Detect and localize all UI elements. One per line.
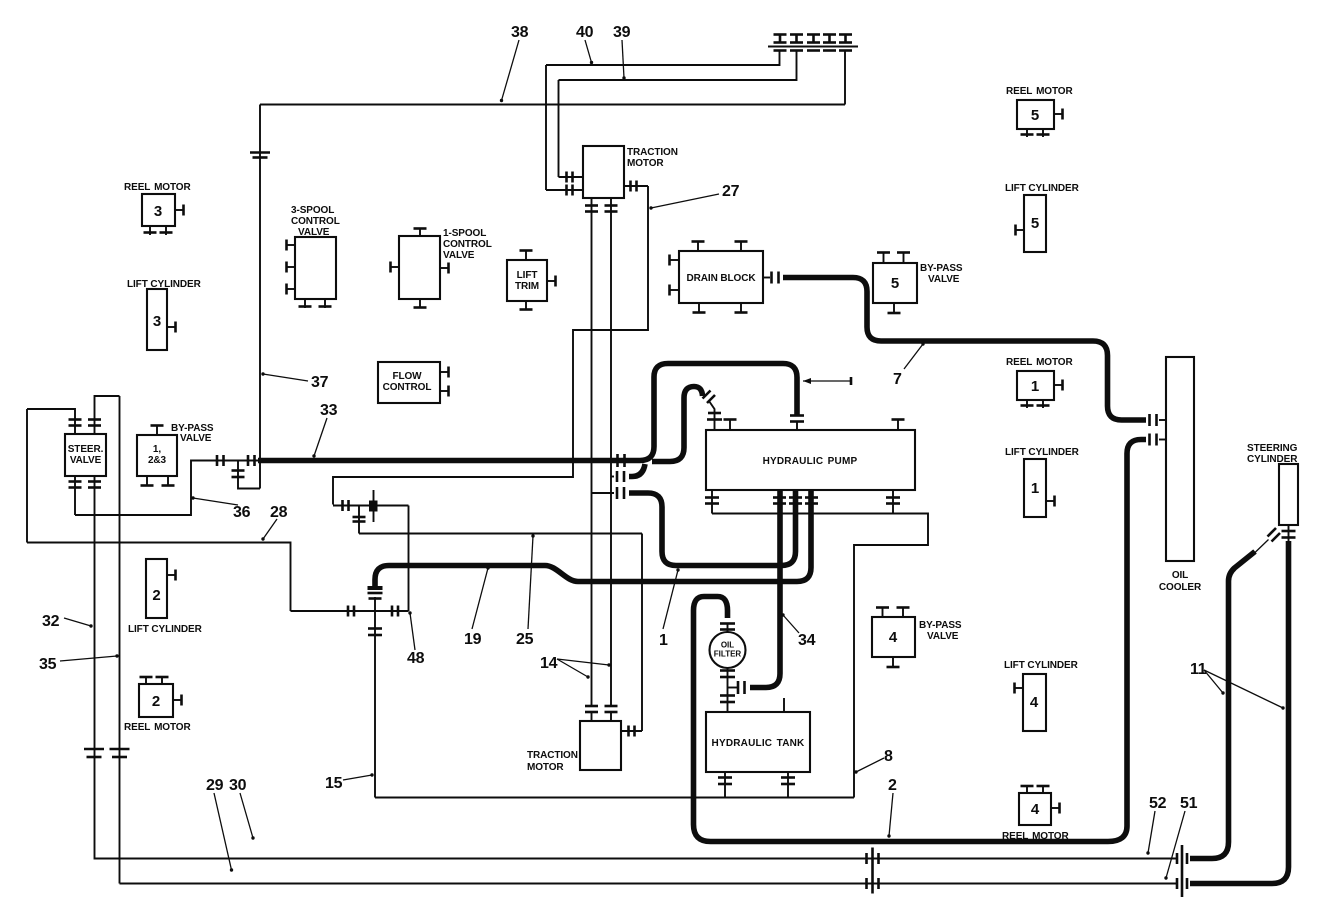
svg-text:5: 5 xyxy=(1031,215,1039,232)
hose B from x591 line to pump xyxy=(592,492,615,494)
svg-text:CONTROL: CONTROL xyxy=(383,382,432,393)
svg-text:15: 15 xyxy=(325,775,343,792)
wire bottom line lower y883 xyxy=(120,883,1178,885)
manifold connector 4 xyxy=(823,35,836,51)
hydraulic pump box xyxy=(706,430,915,490)
svg-text:37: 37 xyxy=(311,374,329,391)
svg-text:REEL MOTOR: REEL MOTOR xyxy=(1006,86,1073,97)
wire vertical x260 xyxy=(259,105,261,489)
svg-text:2: 2 xyxy=(888,777,897,794)
steer valve top-left coupler xyxy=(27,409,75,434)
svg-text:TRACTION: TRACTION xyxy=(527,750,578,761)
manifold connector 3 xyxy=(807,35,820,51)
stub from y505 down to y534 line xyxy=(358,506,360,534)
oil filter return hose xyxy=(694,454,1128,842)
svg-text:CONTROL: CONTROL xyxy=(291,216,340,227)
svg-text:33: 33 xyxy=(320,402,338,419)
svg-text:REEL MOTOR: REEL MOTOR xyxy=(1006,357,1073,368)
svg-text:1: 1 xyxy=(659,632,668,649)
svg-text:1: 1 xyxy=(1031,378,1039,395)
svg-text:1: 1 xyxy=(1031,480,1039,497)
svg-text:29: 29 xyxy=(206,777,224,794)
flow control xyxy=(378,362,440,403)
svg-text:FLOW: FLOW xyxy=(392,371,422,382)
svg-text:38: 38 xyxy=(511,24,529,41)
wire 36 loop xyxy=(75,461,215,516)
svg-text:LIFT: LIFT xyxy=(517,270,538,281)
pump hook vent hose xyxy=(652,387,703,462)
lift cylinder 1 xyxy=(1024,459,1046,517)
wire y505 segment xyxy=(333,505,409,507)
steering cylinder xyxy=(1279,464,1298,525)
svg-text:1,: 1, xyxy=(153,444,161,455)
svg-text:CYLINDER: CYLINDER xyxy=(1247,454,1298,465)
cooler lower fitting xyxy=(1159,439,1166,441)
svg-text:VALVE: VALVE xyxy=(443,250,475,261)
bulkhead connector mid xyxy=(871,848,874,894)
svg-text:28: 28 xyxy=(270,504,288,521)
lift cylinder 3 xyxy=(147,289,167,350)
coupler column at x375 lower xyxy=(374,611,376,798)
wire 14 line left (x591) xyxy=(591,212,593,707)
by-pass valve 4 xyxy=(872,617,915,657)
hose from x611 line to hose 33 xyxy=(611,476,614,478)
svg-text:LIFT CYLINDER: LIFT CYLINDER xyxy=(128,624,203,635)
wire x642 drop to lower TM xyxy=(641,534,643,732)
svg-text:2: 2 xyxy=(152,587,160,604)
svg-text:OIL: OIL xyxy=(1172,570,1188,581)
svg-text:36: 36 xyxy=(233,504,251,521)
hose C traction return xyxy=(375,490,811,588)
couplers above lower TM xyxy=(585,706,598,712)
oil cooler xyxy=(1166,357,1194,561)
coupler on x94 line xyxy=(84,749,104,757)
manifold connector 2 xyxy=(790,35,803,51)
fitting lower TM right xyxy=(621,730,642,732)
wire 14 line right (x611) xyxy=(610,212,612,707)
steer valve top-right coupler xyxy=(95,396,120,434)
blocked coupling symbol on y505 xyxy=(373,490,375,522)
svg-text:48: 48 xyxy=(407,650,425,667)
svg-text:DRAIN BLOCK: DRAIN BLOCK xyxy=(687,273,757,284)
lift trim xyxy=(507,260,547,301)
lift cylinder 4 xyxy=(1023,674,1046,731)
svg-text:LIFT CYLINDER: LIFT CYLINDER xyxy=(127,279,202,290)
svg-text:VALVE: VALVE xyxy=(70,455,102,466)
svg-text:35: 35 xyxy=(39,656,57,673)
wire 48 junction line y611 xyxy=(291,610,409,612)
svg-text:4: 4 xyxy=(1031,801,1040,818)
svg-text:REEL MOTOR: REEL MOTOR xyxy=(124,182,191,193)
svg-text:TRACTION: TRACTION xyxy=(627,147,678,158)
lift cylinder 5 xyxy=(1024,195,1046,252)
hose 11 right xyxy=(1190,541,1289,884)
hose C end flare xyxy=(368,586,383,590)
svg-text:25: 25 xyxy=(516,631,534,648)
manifold connector 5 xyxy=(839,35,852,51)
svg-text:LIFT CYLINDER: LIFT CYLINDER xyxy=(1005,183,1080,194)
svg-text:4: 4 xyxy=(1030,694,1039,711)
reel motor 5 xyxy=(1017,100,1054,129)
tank top stub xyxy=(783,698,785,712)
fitting on y611 left xyxy=(348,606,354,617)
filter-tank couplers xyxy=(720,696,735,703)
reel motor 1 xyxy=(1017,371,1054,400)
wire tank bottom line y797 xyxy=(375,797,854,799)
svg-text:LIFT CYLINDER: LIFT CYLINDER xyxy=(1004,660,1079,671)
coupler on x260 line xyxy=(250,153,270,158)
hose 33 supply xyxy=(258,364,797,461)
svg-text:3: 3 xyxy=(153,313,161,330)
wire TM right port chain xyxy=(333,186,648,505)
by-pass valve 2&3 xyxy=(137,435,177,476)
oil filter bottom coupler xyxy=(727,668,729,712)
wire top long line 38 xyxy=(260,104,845,106)
TM bottom stub couplers xyxy=(591,198,593,212)
drain block xyxy=(679,251,763,303)
reel motor 3 xyxy=(142,194,175,226)
svg-text:REEL MOTOR: REEL MOTOR xyxy=(124,722,191,733)
svg-text:5: 5 xyxy=(1031,107,1039,124)
fitting TM top left lower xyxy=(546,189,583,191)
pump bottom fitting x712 xyxy=(711,490,713,514)
svg-text:5: 5 xyxy=(891,275,899,292)
svg-text:1-SPOOL: 1-SPOOL xyxy=(443,228,486,239)
svg-text:VALVE: VALVE xyxy=(180,433,212,444)
wire 25 line y534 xyxy=(359,533,642,535)
wire bottom line upper y858 xyxy=(95,749,1178,859)
reel motor 4 xyxy=(1019,793,1051,825)
svg-text:27: 27 xyxy=(722,183,740,200)
hose 11 left xyxy=(1190,552,1255,859)
lift cylinder 2 xyxy=(146,559,167,618)
svg-text:MOTOR: MOTOR xyxy=(627,158,664,169)
svg-text:32: 32 xyxy=(42,613,60,630)
tank bottom right coupler xyxy=(787,772,789,798)
svg-text:19: 19 xyxy=(464,631,482,648)
hose A pressure to filter xyxy=(750,490,780,688)
cooler upper fitting xyxy=(1159,419,1166,421)
tank bottom left coupler xyxy=(724,772,726,798)
svg-text:3-SPOOL: 3-SPOOL xyxy=(291,205,334,216)
svg-text:39: 39 xyxy=(613,24,631,41)
steer valve bottom-left coupler xyxy=(74,476,76,515)
manifold bulkhead line xyxy=(768,46,858,48)
by-pass valve 5 xyxy=(873,263,917,303)
svg-text:8: 8 xyxy=(884,748,893,765)
coupler column at x375 upper xyxy=(374,597,376,611)
lower traction motor box xyxy=(580,721,621,770)
drain block right fitting xyxy=(763,277,770,279)
svg-text:COOLER: COOLER xyxy=(1159,582,1202,593)
fitting on y505 xyxy=(343,500,349,511)
filter outlet tee fitting xyxy=(728,687,738,689)
1-spool control valve xyxy=(399,236,440,299)
wire outer loop left xyxy=(26,409,28,543)
tee coupler to x260 drop xyxy=(238,461,260,489)
fitting TM top left upper xyxy=(559,176,584,178)
manifold connector 1 xyxy=(774,35,787,51)
svg-text:CONTROL: CONTROL xyxy=(443,239,492,250)
pump top fitting x797 xyxy=(790,416,804,422)
arrow callout at pump top hose xyxy=(803,380,851,382)
hose cooler return to filter xyxy=(1127,440,1146,454)
svg-text:3: 3 xyxy=(154,203,162,220)
svg-text:7: 7 xyxy=(893,371,902,388)
pump bottom fitting x893 xyxy=(892,490,894,514)
oil filter xyxy=(710,632,746,668)
svg-text:BY-PASS: BY-PASS xyxy=(919,620,962,631)
3-spool control valve xyxy=(295,237,336,299)
coupler on x119 line xyxy=(110,749,130,757)
svg-text:VALVE: VALVE xyxy=(298,227,330,238)
steering cylinder bottom coupler xyxy=(1288,525,1290,541)
traction motor (top) box xyxy=(583,146,624,198)
hose 7 drain to cooler xyxy=(783,278,1146,421)
wire pump drain frame xyxy=(712,514,928,798)
hydraulic tank xyxy=(706,712,810,772)
svg-text:BY-PASS: BY-PASS xyxy=(920,263,963,274)
svg-text:REEL MOTOR: REEL MOTOR xyxy=(1002,831,1069,842)
bulkhead connector right xyxy=(1181,845,1184,897)
junction fittings feeding hose 33 xyxy=(215,460,258,462)
svg-text:52: 52 xyxy=(1149,795,1167,812)
diagonal coupler at pump inlet xyxy=(703,391,716,404)
svg-text:2&3: 2&3 xyxy=(148,455,167,466)
svg-text:FILTER: FILTER xyxy=(714,650,742,659)
pump bottom hose port fittings xyxy=(773,498,786,504)
svg-text:40: 40 xyxy=(576,24,594,41)
svg-text:STEERING: STEERING xyxy=(1247,443,1298,454)
steering cylinder diagonal coupler xyxy=(1268,528,1281,542)
fitting on y611 right xyxy=(392,606,398,617)
svg-text:51: 51 xyxy=(1180,795,1198,812)
svg-text:HYDRAULIC TANK: HYDRAULIC TANK xyxy=(712,738,806,749)
svg-text:30: 30 xyxy=(229,777,247,794)
svg-text:VALVE: VALVE xyxy=(928,274,960,285)
wire x408 drop xyxy=(408,506,410,612)
svg-text:OIL: OIL xyxy=(721,641,734,650)
oil filter top coupler xyxy=(720,624,735,630)
svg-text:34: 34 xyxy=(798,632,816,649)
svg-text:LIFT CYLINDER: LIFT CYLINDER xyxy=(1005,447,1080,458)
wire 39 line xyxy=(559,51,797,81)
wire 28 line xyxy=(27,543,291,612)
wire drop to traction motor left upper xyxy=(558,80,560,177)
wire drop to traction motor left lower xyxy=(545,65,547,190)
steer valve xyxy=(65,434,106,476)
fitting on hose 33 xyxy=(618,454,625,467)
svg-text:14: 14 xyxy=(540,655,558,672)
svg-text:MOTOR: MOTOR xyxy=(527,762,564,773)
pump top right stub xyxy=(897,420,899,430)
svg-text:VALVE: VALVE xyxy=(927,631,959,642)
fitting TM top right xyxy=(624,185,648,187)
svg-text:HYDRAULIC PUMP: HYDRAULIC PUMP xyxy=(763,456,858,467)
svg-text:2: 2 xyxy=(152,693,160,710)
svg-text:4: 4 xyxy=(889,629,898,646)
steer valve bottom-right coupler xyxy=(94,476,96,749)
pump top stub 2 xyxy=(729,420,731,430)
svg-text:STEER.: STEER. xyxy=(68,444,104,455)
wire x119 drop xyxy=(119,396,121,884)
reel motor 2 xyxy=(139,684,173,717)
svg-text:11: 11 xyxy=(1190,661,1207,678)
wire 40 line xyxy=(546,51,780,66)
wire manifold right drop xyxy=(844,51,846,105)
svg-text:TRIM: TRIM xyxy=(515,281,539,292)
